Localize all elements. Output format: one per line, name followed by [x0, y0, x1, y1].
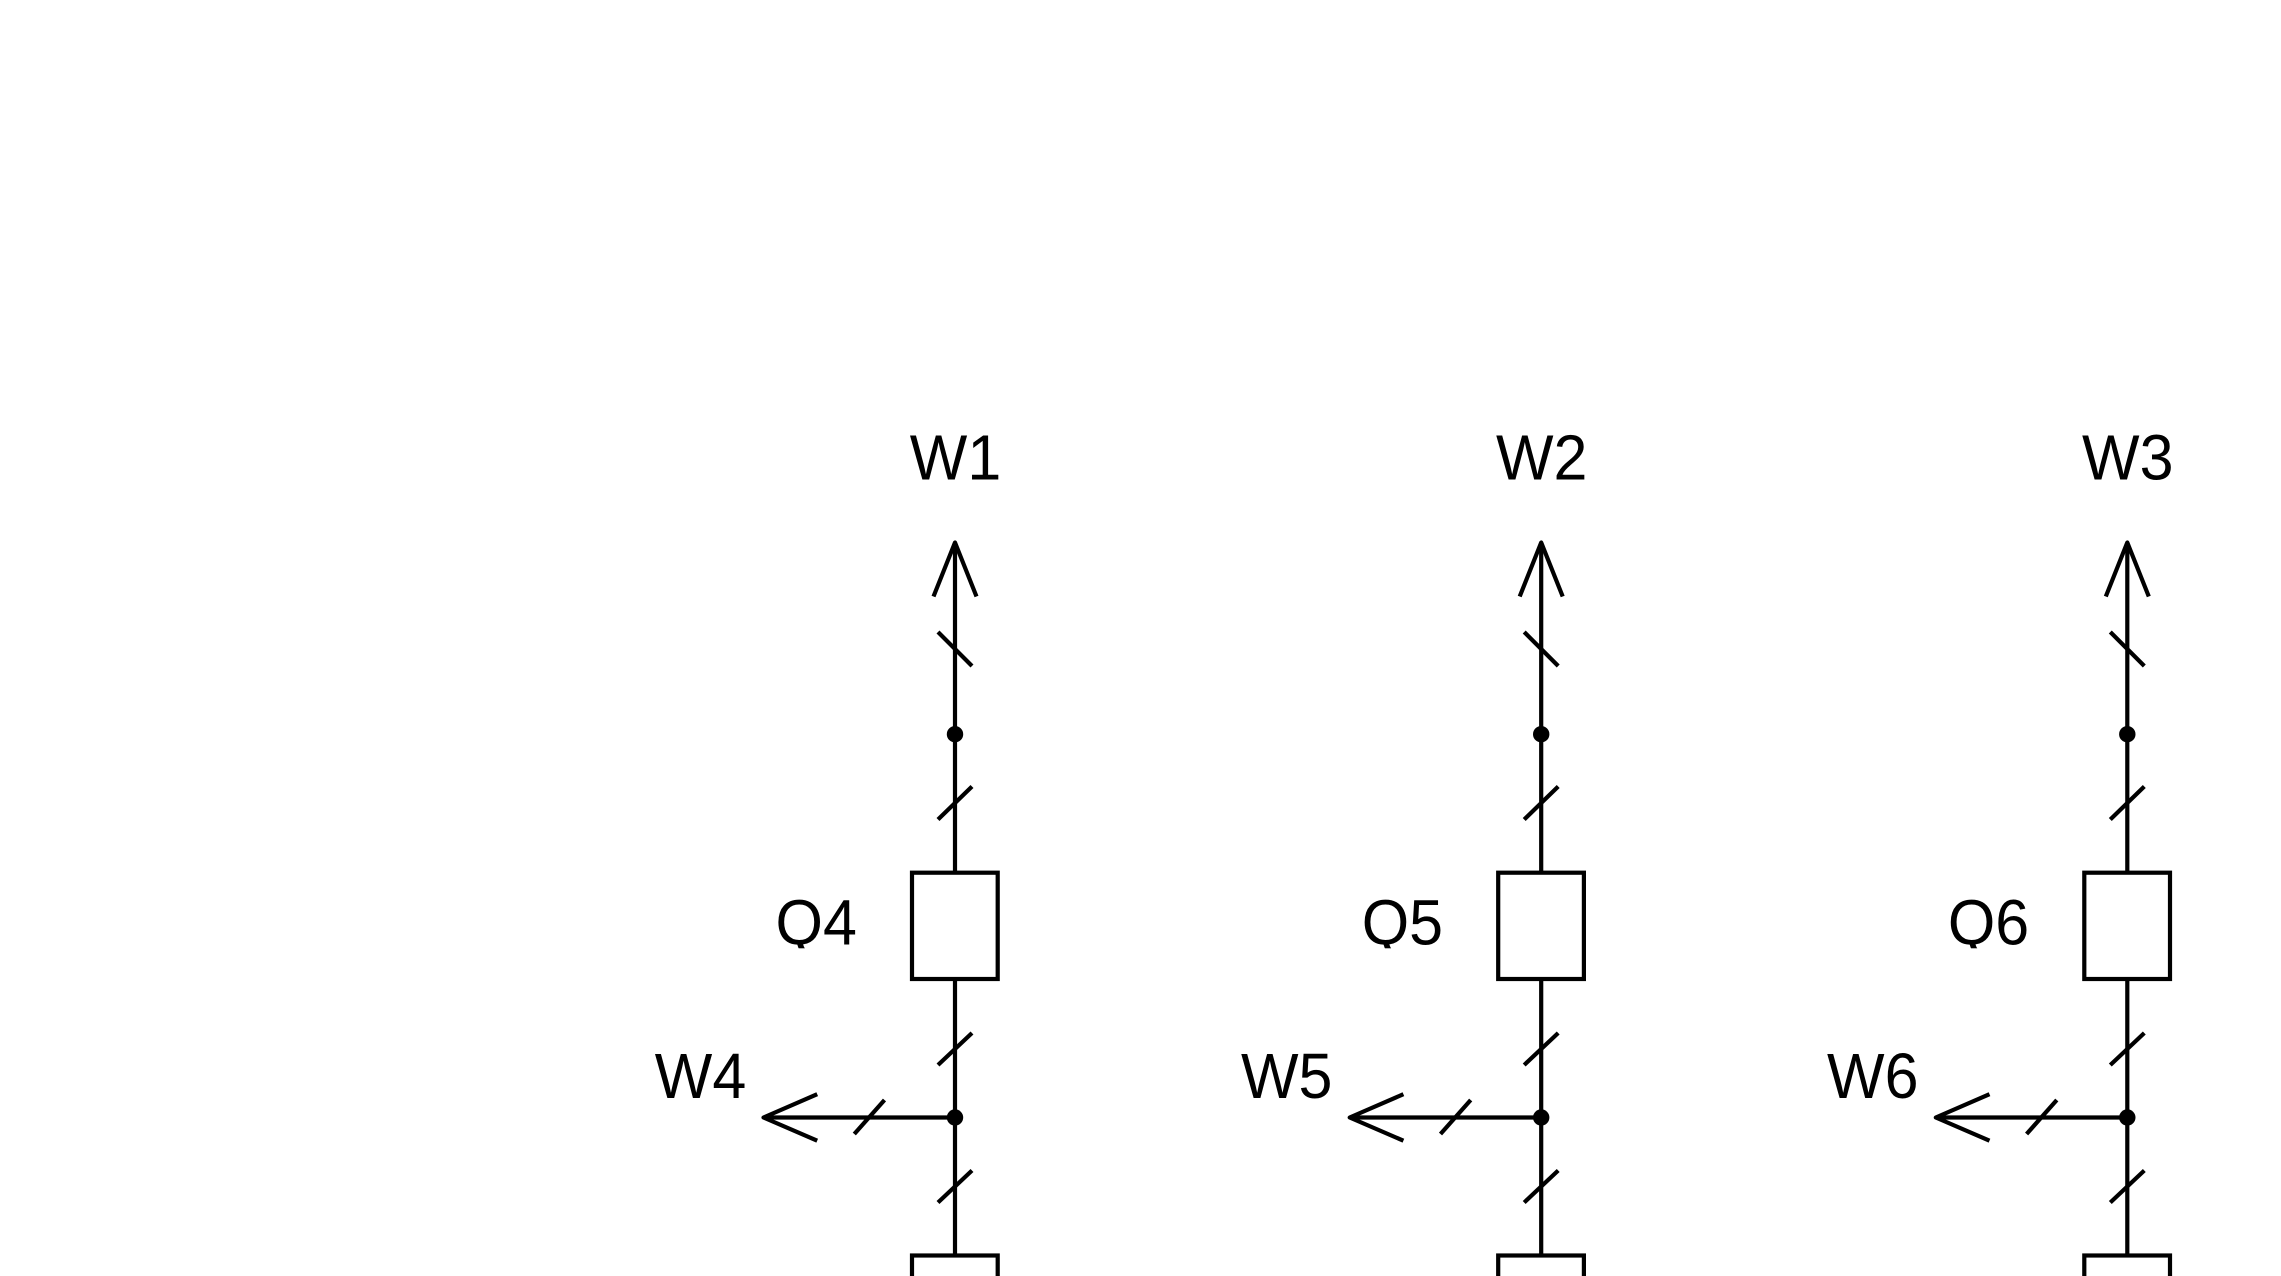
lower component box (clipped at page bottom): [2084, 1256, 2170, 1276]
wire from Q5 down to lower box: [1539, 977, 1543, 1257]
bus tick on wire W4: [854, 1100, 884, 1134]
arrowhead of wire W2 (off-page, pointing up): [1520, 543, 1563, 597]
svg-text:W3: W3: [2082, 422, 2173, 494]
wire W2 (vertical segment from arrowhead down to Q5): [1539, 543, 1543, 874]
svg-text:W1: W1: [910, 422, 1001, 494]
svg-text:W4: W4: [655, 1041, 746, 1113]
junction node joining wire W5: [1533, 1109, 1549, 1125]
transistor Q5 (box symbol): [1498, 873, 1584, 979]
svg-text:W2: W2: [1496, 422, 1587, 494]
arrowhead of wire W5 (off-page, pointing left): [1350, 1094, 1404, 1141]
bus tick on lower wire (below junction): [1524, 1171, 1558, 1203]
bus tick on lower wire (below junction): [2110, 1171, 2144, 1203]
wire W1 (vertical segment from arrowhead down to Q4): [953, 543, 957, 874]
wire W3 (vertical segment from arrowhead down to Q6): [2125, 543, 2129, 874]
svg-text:Q4: Q4: [776, 887, 857, 959]
junction node on wire W1: [947, 726, 963, 742]
bus tick on wire W5: [1441, 1100, 1471, 1134]
arrowhead of wire W4 (off-page, pointing left): [764, 1094, 818, 1141]
svg-text:W6: W6: [1827, 1041, 1918, 1113]
arrowhead of wire W1 (off-page, pointing up): [934, 543, 977, 597]
svg-text:Q6: Q6: [1948, 887, 2029, 959]
wire from Q6 down to lower box: [2125, 977, 2129, 1257]
bus tick on wire W2 (upper): [1524, 632, 1558, 666]
wire W5 (horizontal segment): [1351, 1115, 1541, 1119]
junction node on wire W2: [1533, 726, 1549, 742]
bus tick on lower wire (above junction): [938, 1033, 972, 1065]
bus tick on wire W2 (lower): [1524, 787, 1558, 820]
bus tick on lower wire (above junction): [2110, 1033, 2144, 1065]
bus tick on wire W3 (upper): [2110, 632, 2144, 666]
lower component box (clipped at page bottom): [1498, 1256, 1584, 1276]
bus tick on lower wire (below junction): [938, 1171, 972, 1203]
bus tick on wire W3 (lower): [2110, 787, 2144, 820]
arrowhead of wire W6 (off-page, pointing left): [1936, 1094, 1990, 1141]
bus tick on wire W6: [2027, 1100, 2057, 1134]
bus tick on wire W1 (lower): [938, 787, 972, 820]
transistor Q4 (box symbol): [912, 873, 998, 979]
junction node joining wire W4: [947, 1109, 963, 1125]
wire from Q4 down to lower box: [953, 977, 957, 1257]
svg-text:W5: W5: [1241, 1041, 1332, 1113]
wire W4 (horizontal segment): [765, 1115, 955, 1119]
bus tick on wire W1 (upper): [938, 632, 972, 666]
bus tick on lower wire (above junction): [1524, 1033, 1558, 1065]
transistor Q6 (box symbol): [2084, 873, 2170, 979]
wire W6 (horizontal segment): [1937, 1115, 2127, 1119]
junction node joining wire W6: [2119, 1109, 2135, 1125]
arrowhead of wire W3 (off-page, pointing up): [2106, 543, 2149, 597]
lower component box (clipped at page bottom): [912, 1256, 998, 1276]
svg-text:Q5: Q5: [1362, 887, 1443, 959]
junction node on wire W3: [2119, 726, 2135, 742]
